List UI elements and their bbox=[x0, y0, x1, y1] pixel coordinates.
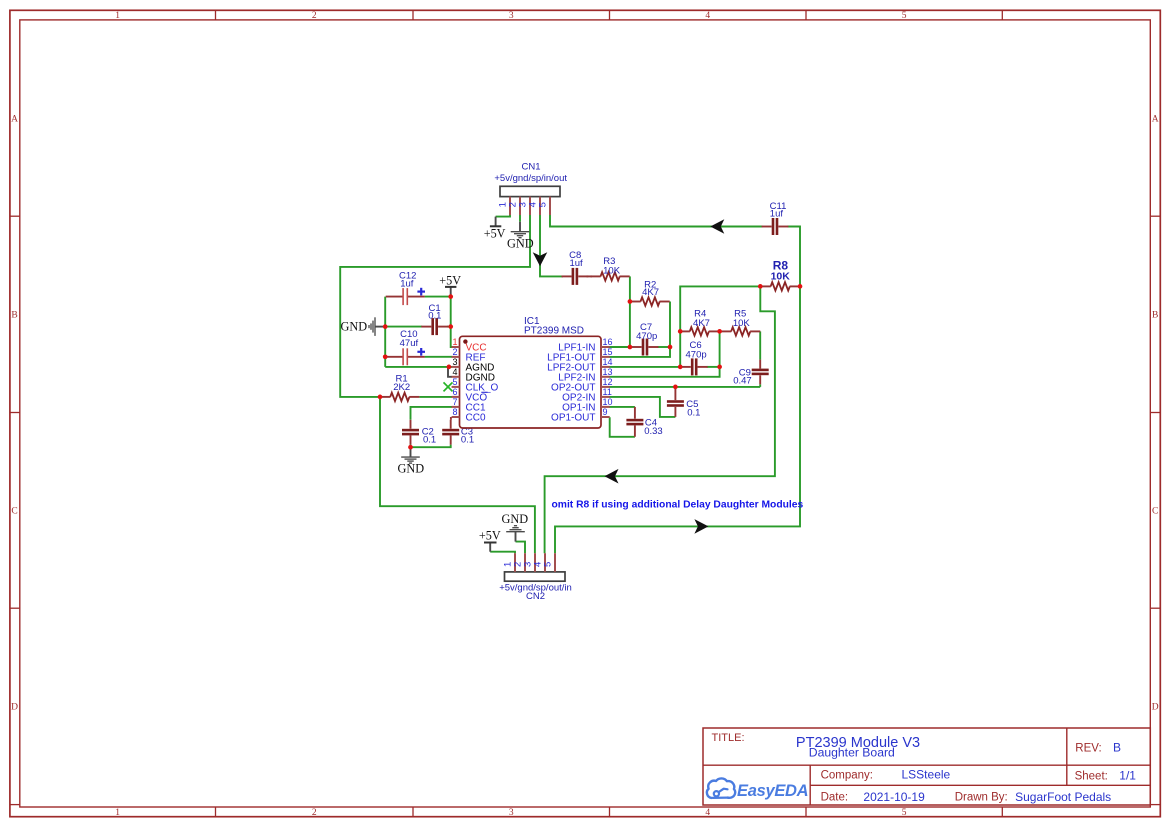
svg-text:0.1: 0.1 bbox=[461, 434, 474, 445]
IC1 right pin stubs bbox=[601, 346, 610, 348]
capacitor C5 bbox=[674, 387, 676, 400]
svg-text:3: 3 bbox=[509, 808, 514, 818]
svg-text:8: 8 bbox=[452, 407, 457, 417]
wire CN1 pin1 to +5V flag bbox=[496, 214, 510, 217]
svg-text:Date:: Date: bbox=[821, 792, 849, 804]
connector CN1 bbox=[500, 186, 560, 196]
wire pin12 OP2-OUT to C9 bottom bbox=[610, 386, 761, 388]
IC1 pin1 dot bbox=[463, 339, 467, 343]
capacitor C1 bbox=[421, 326, 431, 328]
wire CC1 pin7 to C2 bbox=[411, 407, 453, 420]
svg-text:5: 5 bbox=[537, 202, 548, 207]
wire R1 node down to CN2 pin3 bbox=[380, 397, 535, 553]
svg-text:10: 10 bbox=[603, 397, 613, 407]
svg-text:GND: GND bbox=[501, 512, 528, 526]
svg-text:D: D bbox=[11, 703, 18, 713]
capacitor C3 bbox=[450, 420, 452, 429]
capacitor C11 bbox=[762, 226, 772, 228]
capacitor C8 bbox=[562, 275, 572, 277]
IC U1 PT2399 body bbox=[460, 336, 602, 428]
svg-text:0.47: 0.47 bbox=[733, 376, 752, 387]
svg-text:C: C bbox=[11, 507, 17, 517]
wire R1 to VCO pin6 bbox=[419, 396, 452, 398]
arrow right on CN2 pin5 wire bbox=[694, 519, 708, 534]
wire pin16 LPF1-IN to C7 bbox=[610, 346, 631, 348]
svg-text:0.33: 0.33 bbox=[644, 426, 663, 437]
svg-text:4: 4 bbox=[705, 11, 710, 21]
junction dots bbox=[378, 395, 383, 400]
wire C9 bottom corner bbox=[759, 384, 761, 387]
svg-text:C: C bbox=[1152, 507, 1158, 517]
wire DGND pin4 bracket bbox=[448, 368, 452, 377]
wire pin14 LPF2-OUT to C6 bbox=[610, 366, 681, 368]
resistor R2 bbox=[641, 297, 660, 305]
wire C6 right to column bbox=[707, 366, 720, 368]
svg-text:+5V: +5V bbox=[484, 226, 506, 240]
GND flag below C2 bbox=[410, 447, 412, 457]
capacitor C10 polarized bbox=[386, 356, 403, 358]
svg-text:3: 3 bbox=[509, 11, 514, 21]
svg-text:12: 12 bbox=[603, 377, 613, 387]
svg-text:14: 14 bbox=[603, 357, 613, 367]
wire C10 right to REF pin2 bbox=[425, 356, 452, 358]
arrow left on CN2 pin4 wire bbox=[605, 469, 619, 484]
svg-text:2: 2 bbox=[452, 347, 457, 357]
svg-text:10K: 10K bbox=[733, 318, 751, 329]
wire right rail down to CN2 pin5 bbox=[555, 286, 800, 553]
EasyEDA logo bbox=[707, 778, 735, 798]
svg-text:5: 5 bbox=[902, 11, 907, 21]
wire CN2 pin1 to +5V flag bbox=[490, 552, 515, 554]
capacitor C2 bbox=[410, 420, 412, 429]
svg-text:470p: 470p bbox=[686, 350, 707, 361]
svg-text:0.1: 0.1 bbox=[687, 407, 700, 418]
wire R2 right down to LPF1-OUT bbox=[610, 302, 671, 357]
GND flag near CN1 bbox=[519, 222, 521, 232]
svg-text:2: 2 bbox=[312, 11, 317, 21]
svg-text:4K7: 4K7 bbox=[642, 287, 659, 298]
+5V flag near CN1 bbox=[495, 217, 497, 227]
svg-text:1: 1 bbox=[115, 11, 120, 21]
wire bottom loop to AGND pin3 bbox=[385, 366, 452, 368]
svg-text:4: 4 bbox=[705, 808, 710, 818]
svg-text:CN2: CN2 bbox=[526, 591, 545, 602]
svg-text:A: A bbox=[11, 114, 18, 124]
wire C4 bottom to pin9 OP1-OUT bbox=[610, 417, 635, 437]
svg-text:1/1: 1/1 bbox=[1119, 769, 1136, 783]
svg-text:10K: 10K bbox=[603, 265, 621, 276]
arrow left on top wire bbox=[710, 219, 724, 234]
svg-text:2021-10-19: 2021-10-19 bbox=[863, 790, 925, 804]
+5V flag near CN2 bbox=[489, 543, 491, 552]
svg-text:0.1: 0.1 bbox=[428, 311, 441, 322]
svg-text:Company:: Company: bbox=[821, 769, 873, 781]
resistor R3 bbox=[587, 275, 593, 277]
svg-text:470p: 470p bbox=[636, 331, 657, 342]
svg-text:Sheet:: Sheet: bbox=[1075, 770, 1108, 782]
wire CC0 pin8 to C3 bbox=[450, 417, 452, 420]
svg-text:10K: 10K bbox=[771, 271, 791, 283]
+5V flag above C1 bbox=[450, 287, 452, 297]
svg-text:7: 7 bbox=[452, 397, 457, 407]
svg-text:2K2: 2K2 bbox=[393, 382, 410, 393]
svg-text:CN1: CN1 bbox=[521, 162, 540, 173]
svg-text:omit R8 if using additional De: omit R8 if using additional Delay Daught… bbox=[552, 500, 804, 511]
no-connect cross on CLK_O pin5 bbox=[444, 382, 453, 391]
svg-text:3: 3 bbox=[452, 357, 457, 367]
IC1 left pin stubs bbox=[452, 346, 460, 348]
wire CN1 pin4 down to C8 bbox=[540, 214, 563, 277]
svg-text:GND: GND bbox=[397, 462, 424, 476]
svg-text:OP1-OUT: OP1-OUT bbox=[551, 413, 595, 424]
resistor R8 bbox=[771, 282, 790, 290]
capacitor C7 bbox=[632, 346, 642, 348]
svg-text:REV:: REV: bbox=[1075, 742, 1101, 754]
svg-text:1uf: 1uf bbox=[569, 258, 583, 269]
svg-text:5: 5 bbox=[542, 562, 553, 567]
svg-text:1uf: 1uf bbox=[770, 208, 784, 219]
svg-text:2: 2 bbox=[312, 808, 317, 818]
svg-text:1: 1 bbox=[452, 337, 457, 347]
svg-text:SugarFoot Pedals: SugarFoot Pedals bbox=[1015, 790, 1111, 804]
wire C12 right to +5V node bbox=[425, 296, 451, 298]
svg-text:11: 11 bbox=[603, 387, 612, 397]
svg-text:CC0: CC0 bbox=[466, 413, 486, 424]
svg-text:D: D bbox=[1152, 703, 1159, 713]
resistor R1 bbox=[390, 393, 409, 401]
svg-text:+5V: +5V bbox=[439, 274, 461, 288]
capacitor C6 bbox=[681, 366, 691, 368]
resistor R4 bbox=[690, 327, 709, 335]
svg-text:Daughter Board: Daughter Board bbox=[809, 746, 895, 760]
svg-text:9: 9 bbox=[603, 407, 608, 417]
wire CN1 pin2 to GND flag bbox=[519, 214, 521, 222]
svg-text:B: B bbox=[11, 311, 17, 321]
capacitor C4 bbox=[634, 407, 636, 419]
svg-text:16: 16 bbox=[603, 337, 613, 347]
wire node down to C7 row bbox=[629, 302, 631, 348]
wire CN2 pin2 to GND flag bbox=[516, 542, 526, 554]
wire C1 right to +5V column bbox=[447, 326, 451, 328]
svg-text:+5v/gnd/sp/in/out: +5v/gnd/sp/in/out bbox=[494, 173, 567, 184]
wire CN1 pin5 to C11 bbox=[550, 214, 763, 227]
wire C3 bottom to GND node bbox=[411, 445, 451, 448]
svg-text:+5V: +5V bbox=[479, 529, 501, 543]
connector CN2 bbox=[505, 572, 566, 581]
capacitor C9 bbox=[759, 360, 761, 369]
wire pin11 OP2-IN jog to C5 bottom bbox=[610, 397, 676, 417]
capacitor C12 polarized bbox=[386, 296, 403, 298]
svg-text:1: 1 bbox=[115, 808, 120, 818]
wire left bypass loop vertical bbox=[384, 297, 386, 367]
wire +5V rail to VCC pin1 bbox=[451, 297, 452, 347]
svg-text:5: 5 bbox=[452, 377, 457, 387]
svg-text:13: 13 bbox=[603, 367, 613, 377]
wire C2 bottom to GND node bbox=[410, 445, 412, 448]
svg-text:4K7: 4K7 bbox=[693, 318, 710, 329]
svg-text:GND: GND bbox=[341, 320, 368, 334]
title block outline bbox=[703, 728, 1150, 805]
wire R3 out down to R2 bbox=[629, 276, 631, 301]
svg-text:A: A bbox=[1152, 114, 1159, 124]
svg-text:6: 6 bbox=[452, 387, 457, 397]
svg-text:TITLE:: TITLE: bbox=[712, 732, 745, 744]
svg-text:EasyEDA: EasyEDA bbox=[737, 782, 808, 800]
svg-text:15: 15 bbox=[603, 347, 613, 357]
svg-text:Drawn By:: Drawn By: bbox=[955, 792, 1008, 804]
wire C7 right to column bbox=[658, 346, 671, 348]
wire pin13 LPF2-IN up to R4/R5 node bbox=[610, 331, 720, 376]
svg-text:B: B bbox=[1152, 311, 1158, 321]
wire CN1 pin3 to left rail to R1 bbox=[340, 214, 530, 397]
GND flag near CN2 bbox=[515, 532, 517, 542]
title block dividers bbox=[703, 764, 1150, 766]
svg-text:5: 5 bbox=[902, 808, 907, 818]
wire GND node to C1 bbox=[385, 326, 422, 328]
wire pin10 OP1-IN to C4 top bbox=[610, 406, 635, 408]
arrow down on CN1 pin4 wire bbox=[533, 252, 548, 266]
svg-text:1uf: 1uf bbox=[400, 279, 414, 290]
svg-text:4: 4 bbox=[452, 367, 457, 377]
resistor R5 bbox=[731, 327, 750, 335]
frame column ticks bbox=[215, 10, 217, 20]
svg-text:GND: GND bbox=[507, 236, 534, 250]
wire R8 left to LPF2-OUT column bbox=[680, 286, 760, 367]
svg-text:0.1: 0.1 bbox=[423, 434, 436, 445]
svg-text:PT2399 MSD: PT2399 MSD bbox=[524, 326, 584, 337]
svg-text:47uf: 47uf bbox=[400, 338, 419, 349]
wire R8 left jog down to CN2 pin4 bbox=[545, 286, 775, 553]
frame row ticks bbox=[10, 215, 20, 217]
GND flag left bbox=[375, 326, 385, 328]
wire R5 right down to C9 bbox=[759, 331, 761, 359]
svg-text:LSSteele: LSSteele bbox=[902, 768, 951, 782]
wire C11 to right rail bbox=[787, 227, 800, 287]
svg-text:B: B bbox=[1113, 741, 1121, 755]
